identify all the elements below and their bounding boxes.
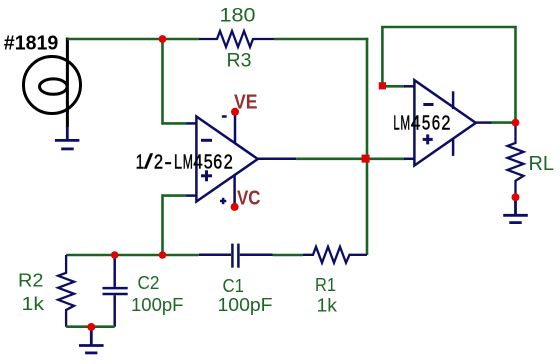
svg-text:L: L [393, 112, 399, 135]
wire: C1 to R1 [273, 254, 304, 257]
op-amp U2 (LM4562) [404, 80, 492, 165]
op-amp U1 (1/2-LM4562) [186, 112, 296, 206]
svg-text:2: 2 [154, 151, 163, 174]
svg-text:1k: 1k [22, 294, 46, 314]
svg-text:M: M [400, 112, 410, 135]
node D junction dot (U2 output) [512, 119, 520, 127]
svg-text:5: 5 [204, 151, 213, 174]
resistor R3 [199, 31, 274, 47]
svg-text:M: M [183, 151, 193, 174]
svg-text:VC: VC [237, 188, 261, 210]
svg-text:1k: 1k [317, 296, 339, 316]
wire: R3 to right vertical [274, 38, 368, 41]
svg-text:C1: C1 [223, 276, 245, 296]
node B junction dot (output X junction) [362, 155, 370, 163]
svg-text:R1: R1 [315, 275, 336, 295]
wire: U1 non-inverting input (down to bottom node) [163, 196, 187, 255]
wire: U1 output to node B and U2 + input [296, 158, 405, 161]
wire bottom: R2 top to C1 [66, 254, 199, 257]
U1 label 1/2-LM4562 [136, 151, 233, 174]
node E dot (RL to ground) [512, 193, 520, 201]
svg-text:6: 6 [213, 151, 222, 174]
svg-text:L: L [174, 151, 182, 174]
svg-text:100pF: 100pF [131, 295, 184, 315]
node G dot (U1 + input branch) [159, 251, 167, 259]
svg-text:/: / [144, 151, 153, 174]
wire: U1 inverting input (from node A down and right) [163, 39, 187, 123]
svg-text:C2: C2 [138, 273, 160, 293]
node C junction dot (U2 inverting input) [379, 82, 386, 89]
U2 label LM4562 [393, 112, 450, 135]
svg-text:2: 2 [441, 112, 450, 135]
ground (lamp) [55, 127, 80, 149]
wire bottom-bottom: R2 to C2 [66, 325, 115, 328]
capacitor C2 [103, 255, 128, 327]
resistor RL [508, 123, 524, 198]
node H dot (ground branch) [87, 323, 95, 331]
ground (RL) [503, 197, 528, 222]
svg-text:100pF: 100pF [218, 295, 273, 315]
wire: vertical x=366 from top wire to bottom network [366, 38, 369, 255]
svg-text:1: 1 [136, 151, 145, 174]
svg-text:R2: R2 [18, 271, 44, 291]
svg-text:6: 6 [432, 112, 440, 135]
node F dot (C2 top) [111, 251, 119, 259]
svg-text:4: 4 [411, 112, 421, 135]
wire: U2 feedback loop (output to inverting input) [382, 27, 515, 123]
wire top: lamp to R3 [67, 38, 199, 41]
VC pin dot [231, 203, 239, 211]
svg-text:R3: R3 [227, 50, 252, 72]
svg-text:4: 4 [193, 151, 202, 174]
resistor R2 [58, 255, 74, 327]
node A junction dot [159, 35, 167, 43]
ground (bottom) [79, 327, 104, 353]
svg-text:2: 2 [224, 151, 233, 174]
svg-text:RL: RL [529, 153, 555, 175]
wire: node C to U2 inverting input [382, 85, 405, 88]
svg-text:-: - [164, 151, 172, 174]
capacitor C1 [199, 244, 273, 268]
lamp LP1 #1819 [24, 38, 81, 128]
VE pin dot [231, 108, 239, 116]
resistor R1 [303, 247, 367, 263]
wire: U2 output to node D [492, 121, 516, 124]
svg-text:5: 5 [422, 112, 430, 135]
svg-text:#1819: #1819 [4, 31, 59, 54]
svg-text:180: 180 [220, 5, 256, 27]
